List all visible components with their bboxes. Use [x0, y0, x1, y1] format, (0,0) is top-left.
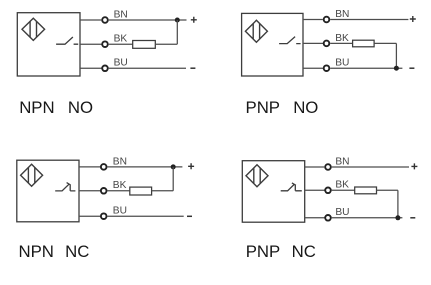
terminal circle BN Q2 [324, 17, 330, 23]
minus terminal Q2 [409, 67, 414, 69]
terminal circle BN Q1 [102, 17, 108, 23]
junction dot Q4 [395, 215, 400, 220]
terminal circle BK Q2 [324, 41, 330, 47]
wire BK Q1 box to terminal [80, 43, 102, 45]
svg-text:BU: BU [335, 207, 349, 218]
NC switch contact Q3 [55, 183, 75, 191]
svg-text:NO: NO [68, 98, 93, 117]
wire BU Q3 terminal to minus [107, 215, 183, 217]
wire BN Q1 box to terminal [80, 19, 101, 21]
svg-text:BK: BK [113, 180, 127, 191]
inductive sensor diamond symbol U2 [245, 20, 267, 42]
wire BU Q2 box to terminal [303, 67, 324, 69]
minus terminal Q3 [187, 215, 192, 217]
svg-text:NC: NC [65, 242, 89, 261]
plus terminal Q3 [188, 163, 194, 169]
wire resistor to corner Q4 [377, 189, 398, 191]
wire BK Q2 terminal to resistor [330, 42, 352, 44]
NC switch contact Q4 [281, 183, 302, 191]
svg-text:BK: BK [335, 180, 349, 191]
wire BN Q1 terminal to plus [109, 19, 187, 21]
sensor box U2 [242, 13, 303, 76]
wire BN Q2 box to terminal [303, 19, 323, 21]
svg-text:BU: BU [113, 206, 127, 217]
NO switch contact Q2 [279, 37, 301, 44]
wire BN Q2 terminal to plus [330, 19, 408, 21]
svg-text:BK: BK [114, 34, 128, 45]
wire BK Q2 box to terminal [303, 42, 324, 44]
vertical wire to BN junction Q1 [176, 20, 178, 44]
wire BU Q4 terminal to minus [332, 217, 403, 219]
terminal circle BK Q3 [101, 188, 107, 194]
wire BK Q1 terminal to resistor [109, 43, 133, 45]
terminal circle BU Q4 [325, 215, 331, 221]
sensor box U3 [17, 160, 79, 222]
plus terminal Q1 [191, 17, 197, 23]
NO switch contact Q1 [56, 37, 78, 44]
svg-text:BN: BN [113, 156, 127, 167]
inductive sensor diamond symbol U1 [22, 18, 45, 40]
wire BN Q3 box to terminal [79, 166, 101, 168]
inductive sensor diamond symbol U4 [246, 165, 268, 187]
svg-text:PNP: PNP [246, 242, 281, 261]
svg-text:NC: NC [292, 242, 316, 261]
minus terminal Q1 [190, 67, 195, 69]
terminal circle BU Q2 [324, 65, 330, 71]
wire BU Q1 box to terminal [80, 67, 102, 69]
wire BK Q3 terminal to resistor [107, 190, 129, 192]
inductive sensor diamond symbol U3 [21, 164, 43, 186]
wire BU Q3 box to terminal [79, 215, 101, 217]
svg-text:BN: BN [335, 9, 349, 20]
load resistor R1 [133, 41, 156, 49]
svg-text:BU: BU [335, 58, 349, 69]
svg-text:BN: BN [335, 156, 349, 167]
sensor box U1 [17, 13, 80, 76]
svg-text:BU: BU [114, 58, 128, 69]
wire BU Q1 terminal to minus [109, 67, 186, 69]
load resistor R3 [130, 187, 152, 195]
svg-text:NPN: NPN [19, 98, 54, 117]
wire BU Q2 terminal to minus [330, 67, 402, 69]
svg-text:NPN: NPN [19, 242, 54, 261]
svg-text:BN: BN [114, 9, 128, 20]
terminal circle BU Q1 [102, 66, 108, 72]
terminal circle BK Q4 [325, 188, 331, 194]
wire resistor to junction Q3 [152, 190, 174, 192]
wire BN Q3 terminal to plus [107, 166, 182, 168]
plus terminal Q2 [410, 16, 416, 22]
junction dot Q1 [175, 18, 180, 23]
svg-text:NO: NO [293, 98, 318, 117]
junction dot Q3 [171, 164, 176, 169]
load resistor R4 [355, 187, 377, 194]
svg-text:PNP: PNP [246, 98, 281, 117]
wire BU Q4 box to terminal [305, 217, 326, 219]
terminal circle BK Q1 [102, 41, 108, 47]
svg-text:BK: BK [335, 33, 349, 44]
wire BK Q4 terminal to resistor [332, 189, 355, 191]
wire BN Q4 box to terminal [305, 166, 325, 168]
plus terminal Q4 [411, 163, 417, 169]
minus terminal Q4 [410, 217, 415, 219]
terminal circle BN Q4 [325, 164, 331, 170]
terminal circle BU Q3 [101, 213, 107, 219]
wire BN Q4 terminal to plus [332, 166, 409, 168]
wire BK Q4 box to terminal [305, 189, 326, 191]
terminal circle BN Q3 [101, 164, 107, 170]
vertical wire down to BU junction Q2 [395, 43, 397, 68]
vertical wire down to BU junction Q4 [397, 190, 399, 218]
wire resistor to corner Q2 [374, 42, 396, 44]
load resistor R2 [353, 40, 375, 47]
vertical wire to BN junction Q3 [172, 167, 174, 191]
sensor box U4 [242, 161, 304, 223]
wire resistor to junction Q1 [155, 43, 177, 45]
junction dot Q2 [394, 66, 399, 71]
wire BK Q3 box to terminal [79, 190, 101, 192]
